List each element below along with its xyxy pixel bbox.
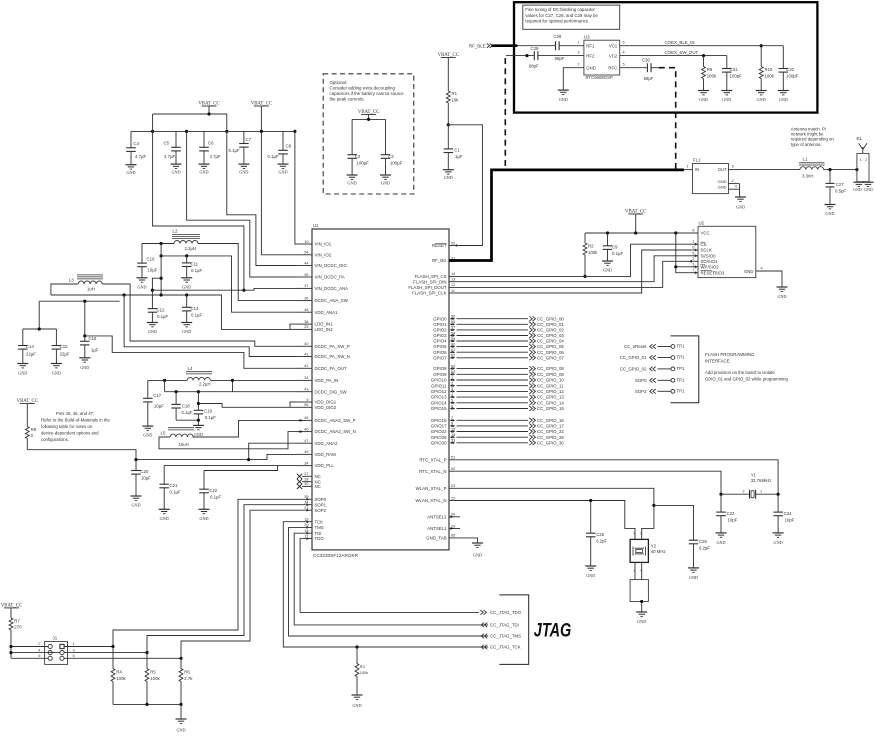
svg-text:33: 33 — [304, 376, 308, 380]
svg-text:GND: GND — [131, 503, 140, 508]
svg-text:FLASH_SPI_DOUT: FLASH_SPI_DOUT — [408, 285, 446, 290]
wire U2 SO stub — [690, 260, 698, 262]
svg-text:34: 34 — [304, 501, 308, 505]
wire CC_GPIO_10 net — [457, 379, 529, 381]
svg-text:C18: C18 — [182, 404, 190, 409]
svg-text:R1: R1 — [452, 91, 458, 96]
wire CC_GPIO_09 net — [457, 373, 529, 375]
capacitor C10 — [141, 244, 143, 264]
svg-text:1: 1 — [760, 490, 762, 494]
note: fine tuning DC blocking caps — [523, 5, 620, 29]
svg-text:GND: GND — [80, 365, 89, 370]
capacitor C24 — [777, 494, 779, 512]
svg-text:FLASH_SPI_CS: FLASH_SPI_CS — [415, 274, 447, 279]
svg-text:C5: C5 — [164, 141, 170, 146]
wire CC_GPIO_17 net — [457, 425, 529, 427]
svg-text:CC_GPIO_01: CC_GPIO_01 — [537, 322, 564, 327]
wire VDD_RAM feed — [27, 450, 296, 460]
capacitor C26 — [689, 539, 698, 541]
svg-text:VIN_DCDC_PA: VIN_DCDC_PA — [315, 275, 345, 280]
pin 46 arrow — [298, 430, 301, 432]
capacitor C19 — [197, 392, 199, 411]
svg-text:JTAG: JTAG — [534, 620, 572, 641]
svg-text:GND: GND — [722, 97, 731, 102]
pin 1 square (J1) — [60, 644, 64, 648]
ground (C11) — [181, 277, 192, 279]
svg-text:1uH: 1uH — [87, 287, 95, 292]
svg-text:1: 1 — [687, 165, 689, 169]
svg-text:68pF: 68pF — [529, 63, 539, 68]
wire rail A left drop — [152, 114, 154, 131]
svg-text:CC_GPIO_04: CC_GPIO_04 — [537, 339, 564, 344]
svg-text:C7: C7 — [246, 137, 252, 142]
svg-text:4.7µF: 4.7µF — [135, 154, 146, 159]
wire WLAN_XTAL_P net — [455, 488, 654, 539]
svg-text:6: 6 — [38, 654, 40, 658]
wire CC_GPIO_13 net — [457, 396, 529, 398]
svg-text:R3: R3 — [360, 664, 365, 669]
svg-text:GND: GND — [239, 170, 248, 175]
svg-text:GND: GND — [864, 187, 873, 192]
ground (C2) — [347, 174, 358, 176]
wire LDO_IN node — [51, 295, 290, 329]
wire COEX_SW_OUT net — [620, 55, 727, 57]
svg-text:capacitors if the battery cann: capacitors if the battery cannot source — [330, 91, 405, 96]
svg-text:GND: GND — [199, 516, 208, 521]
svg-text:CC_GPIO_00: CC_GPIO_00 — [537, 316, 564, 321]
svg-text:GND: GND — [160, 516, 169, 521]
ground (R4-R6) — [176, 718, 187, 720]
wire WLAN_XTAL_N net — [455, 501, 635, 540]
wire RESET net to U1 pin 32 — [448, 125, 482, 246]
ground (C24) — [773, 532, 784, 534]
svg-text:GPIO5: GPIO5 — [433, 344, 447, 349]
svg-text:2.2µH: 2.2µH — [199, 381, 211, 386]
wire U2 WP stub — [690, 266, 698, 268]
pin ANTSEL2 stub — [449, 516, 460, 518]
svg-text:0.1µF: 0.1µF — [612, 251, 623, 256]
svg-text:8: 8 — [692, 229, 694, 233]
capacitor C12 — [151, 290, 153, 308]
svg-text:DCDC_DIG_SW: DCDC_DIG_SW — [315, 389, 348, 394]
wire L4 input — [148, 379, 187, 381]
svg-text:DCDC_ANA2_SW_N: DCDC_ANA2_SW_N — [315, 429, 356, 434]
svg-text:ANTSEL1: ANTSEL1 — [427, 526, 447, 531]
svg-text:GND: GND — [586, 65, 596, 70]
svg-text:Refer to the Build-of-Material: Refer to the Build-of-Materials in the — [41, 417, 110, 422]
svg-text:100pF: 100pF — [786, 74, 799, 79]
svg-text:TP1: TP1 — [677, 366, 686, 371]
wire L3 left wrap — [51, 284, 78, 295]
test point bracket — [671, 336, 699, 403]
pin 27 (U1 NC) — [302, 475, 312, 477]
svg-text:3: 3 — [732, 165, 734, 169]
ground (C23) — [716, 532, 727, 534]
svg-text:GND: GND — [718, 179, 727, 184]
svg-text:WLAN_XTAL_P: WLAN_XTAL_P — [416, 486, 447, 491]
svg-text:5: 5 — [692, 251, 694, 255]
pin 2 circle (J1) — [48, 644, 52, 648]
svg-text:10µF: 10µF — [141, 476, 151, 481]
svg-text:GND: GND — [194, 432, 203, 437]
svg-text:SOP2: SOP2 — [635, 389, 647, 394]
svg-text:C29: C29 — [531, 46, 539, 51]
wire CC_GPIO_07 net — [457, 357, 529, 359]
svg-text:OUT: OUT — [718, 167, 727, 172]
svg-text:C21: C21 — [170, 483, 178, 488]
wire CC_GPIO_16 net — [457, 419, 529, 421]
svg-text:C12: C12 — [157, 307, 165, 312]
svg-text:0.1µF: 0.1µF — [210, 495, 221, 500]
svg-text:2.2µH: 2.2µH — [185, 246, 197, 251]
capacitor C2 — [347, 154, 357, 156]
pin 2 (FL1 GND) — [729, 183, 740, 185]
svg-text:6: 6 — [692, 246, 694, 250]
svg-text:WLAN_XTAL_N: WLAN_XTAL_N — [415, 498, 446, 503]
svg-text:GPIO6: GPIO6 — [433, 350, 447, 355]
svg-text:GPIO4: GPIO4 — [433, 339, 447, 344]
svg-text:DCDC_ANA2_SW_P: DCDC_ANA2_SW_P — [315, 418, 356, 423]
svg-text:TDO: TDO — [315, 536, 325, 541]
svg-text:100k: 100k — [707, 74, 717, 79]
ground (C9) — [602, 260, 613, 262]
svg-text:6.2pF: 6.2pF — [596, 538, 607, 543]
svg-text:GND: GND — [18, 371, 27, 376]
svg-text:9: 9 — [306, 398, 308, 402]
wire RTC_XTAL_P net — [455, 460, 778, 494]
svg-text:C32: C32 — [786, 67, 794, 72]
svg-text:CC_GPIO_03: CC_GPIO_03 — [537, 333, 564, 338]
svg-text:FL1: FL1 — [693, 158, 701, 163]
svg-text:68pF: 68pF — [555, 56, 565, 61]
ground (C6) — [199, 163, 210, 165]
svg-text:GPIO11: GPIO11 — [431, 383, 447, 388]
wire U2 SI stub — [690, 255, 698, 257]
svg-text:GND: GND — [199, 170, 208, 175]
capacitor C15 — [52, 345, 62, 347]
svg-text:C19: C19 — [204, 409, 212, 414]
net CC_JTAG_TDO — [480, 610, 483, 615]
svg-text:14: 14 — [451, 272, 455, 276]
svg-text:TP1: TP1 — [677, 388, 686, 393]
pin 25 (U1 LDO_IN2) — [296, 328, 312, 330]
resistor R5 — [146, 653, 148, 669]
ground (C15) — [51, 363, 62, 365]
ground (U3) — [558, 89, 569, 91]
svg-text:GND: GND — [444, 175, 453, 180]
wire CC_GPIO_01 net — [457, 323, 529, 325]
svg-text:GND: GND — [689, 575, 698, 580]
svg-text:43: 43 — [304, 388, 308, 392]
wire GND_TAB to ground — [455, 538, 478, 543]
capacitor C21 — [163, 466, 165, 485]
wire RF_BG stub — [449, 259, 455, 262]
svg-text:35: 35 — [304, 296, 308, 300]
svg-text:RF_BG: RF_BG — [432, 258, 447, 263]
svg-text:GND: GND — [853, 187, 862, 192]
svg-text:0.1µF: 0.1µF — [205, 415, 216, 420]
svg-text:GND: GND — [586, 573, 595, 578]
svg-text:GND: GND — [757, 97, 766, 102]
ground (Y2) — [636, 611, 647, 613]
wire SOP1 net — [147, 505, 312, 653]
svg-text:FLASH_SPI_DIN: FLASH_SPI_DIN — [413, 279, 446, 284]
svg-text:CS: CS — [701, 242, 707, 247]
svg-text:56: 56 — [304, 403, 308, 407]
ground (R9) — [698, 90, 709, 92]
wire VDD_PA_IN feed — [233, 379, 297, 381]
pin 35 (U1 DCDC_ANA_SW) — [296, 300, 312, 302]
svg-text:48: 48 — [304, 308, 308, 312]
svg-text:following table for notes on: following table for notes on — [41, 424, 93, 429]
JTAG connector bracket — [499, 595, 528, 665]
capacitor C17 — [147, 380, 149, 398]
svg-text:C4: C4 — [134, 141, 140, 146]
svg-text:C2: C2 — [355, 154, 361, 159]
svg-text:GPIO16: GPIO16 — [431, 418, 447, 423]
svg-text:RTC_XTAL_N: RTC_XTAL_N — [419, 469, 446, 474]
wire U2 VCC stub — [690, 232, 698, 234]
svg-text:C23: C23 — [727, 511, 735, 516]
svg-text:GPIO_01 and GPIO_02 while prog: GPIO_01 and GPIO_02 while programming — [705, 377, 788, 382]
svg-text:4: 4 — [761, 267, 763, 271]
wire dashed RF option right — [659, 68, 676, 169]
svg-text:C3: C3 — [388, 154, 394, 159]
wire RFC line — [620, 67, 648, 69]
svg-text:270: 270 — [14, 625, 22, 630]
svg-text:23: 23 — [451, 484, 455, 488]
pin 34 (U1 VDD_PLL) — [296, 465, 312, 467]
net CC_JTAG_TMS — [484, 634, 487, 639]
svg-text:U2: U2 — [699, 220, 705, 225]
svg-text:device-dependent options and: device-dependent options and — [41, 430, 99, 435]
svg-text:47: 47 — [304, 439, 308, 443]
ground (C8) — [278, 163, 289, 165]
ground (C17) — [142, 425, 153, 427]
svg-text:10pF: 10pF — [728, 517, 738, 522]
capacitor C27 — [829, 170, 831, 184]
wire RF2 line — [506, 55, 534, 57]
svg-text:0.1µF: 0.1µF — [157, 314, 168, 319]
pin 47 (U1 VDD_ANA2) — [296, 442, 312, 444]
svg-text:DCDC_PA_SW_N: DCDC_PA_SW_N — [315, 354, 350, 359]
wire rail A — [153, 113, 227, 115]
svg-text:C16: C16 — [89, 336, 97, 341]
pin 1 (FL1 IN) — [684, 169, 693, 171]
resistor R1 — [446, 91, 450, 103]
svg-text:E1: E1 — [857, 136, 863, 141]
svg-text:7: 7 — [692, 268, 694, 272]
svg-text:VDD_DIG2: VDD_DIG2 — [315, 405, 337, 410]
svg-text:34: 34 — [304, 461, 308, 465]
resistor R4 — [112, 647, 114, 669]
svg-text:44: 44 — [304, 261, 308, 265]
capacitor C32 — [782, 46, 784, 69]
svg-text:0.1µF: 0.1µF — [191, 313, 202, 318]
svg-text:U1: U1 — [313, 223, 319, 228]
svg-text:GND: GND — [716, 540, 725, 545]
wire VBAT feed to VIN_DCDC_ANA — [153, 131, 244, 290]
svg-text:GND: GND — [637, 619, 646, 624]
pin 37 (U1 VIN_DCDC_ANA) — [296, 287, 312, 289]
svg-text:CC_GPIO_02: CC_GPIO_02 — [537, 328, 564, 333]
svg-text:6: 6 — [623, 41, 625, 45]
svg-text:GND: GND — [718, 184, 727, 189]
svg-text:CC_GPIO_08: CC_GPIO_08 — [537, 366, 564, 371]
svg-text:C25: C25 — [596, 532, 604, 537]
svg-text:GND: GND — [825, 211, 834, 216]
svg-text:SCLK: SCLK — [701, 248, 712, 253]
header J1 box — [45, 642, 68, 665]
wire CC_GPIO_06 net — [457, 351, 529, 353]
svg-text:6.2pF: 6.2pF — [699, 545, 710, 550]
svg-text:GND: GND — [352, 703, 361, 708]
svg-text:52: 52 — [451, 467, 455, 471]
svg-text:GPIO28: GPIO28 — [431, 435, 447, 440]
pin 9 (U1 VDD_DIG1) — [296, 401, 312, 403]
svg-text:C13: C13 — [191, 306, 199, 311]
wire U2 RESET stub — [690, 272, 698, 274]
pin 44 (U1 VIN_DCDC_DIG) — [296, 265, 312, 267]
svg-text:C11: C11 — [191, 262, 199, 267]
svg-text:100k: 100k — [765, 74, 775, 79]
svg-text:0.1µF: 0.1µF — [182, 410, 193, 415]
ground (C20) — [131, 495, 142, 497]
svg-text:CC_GPIO_15: CC_GPIO_15 — [537, 406, 564, 411]
svg-text:C17: C17 — [153, 393, 161, 398]
svg-text:GND: GND — [559, 97, 568, 102]
svg-text:GPIO13: GPIO13 — [431, 395, 447, 400]
svg-text:type of antenna.: type of antenna. — [791, 142, 822, 147]
svg-text:C31: C31 — [730, 67, 738, 72]
crystal Y2 box — [630, 539, 648, 562]
wire rail B — [131, 130, 295, 132]
pin ANTSEL1 stub — [449, 528, 460, 530]
ground (C13) — [181, 322, 192, 324]
wire J1 pin5 to R6 — [64, 657, 181, 659]
svg-text:100k: 100k — [150, 676, 160, 681]
svg-text:VCC: VCC — [701, 231, 710, 236]
svg-text:GND: GND — [176, 728, 185, 733]
svg-text:GPIO17: GPIO17 — [431, 424, 447, 429]
svg-text:Fine tuning of DC blocking cap: Fine tuning of DC blocking capacitor — [525, 7, 595, 12]
ground (E1 pad1) — [853, 181, 864, 183]
svg-text:51: 51 — [451, 456, 455, 460]
net CC_JTAG_TCK — [484, 645, 487, 650]
ground (C26) — [688, 567, 699, 569]
svg-text:68pF: 68pF — [644, 76, 654, 81]
wire CC_GPIO_15 net — [457, 408, 529, 410]
svg-text:4: 4 — [735, 185, 737, 189]
svg-text:ANTSEL2: ANTSEL2 — [427, 514, 447, 519]
wire rail A right drop — [226, 114, 228, 131]
svg-text:C30: C30 — [642, 58, 650, 63]
capacitor C25 — [590, 501, 592, 534]
pin 5 circle (J1) — [60, 656, 64, 660]
resistor R9 — [703, 56, 705, 67]
svg-text:35: 35 — [304, 495, 308, 499]
svg-text:C20: C20 — [141, 469, 149, 474]
MCU U1 (CC3230SF12ARGKR) box — [312, 229, 449, 550]
svg-text:CC_GPIO_06: CC_GPIO_06 — [537, 350, 564, 355]
svg-text:DCDC_PA_SW_P: DCDC_PA_SW_P — [315, 344, 350, 349]
wire C14/C15 rail — [23, 328, 57, 330]
svg-text:2: 2 — [742, 490, 744, 494]
svg-text:40: 40 — [304, 342, 308, 346]
pin 39 (U1 VIN_DCDC_PA) — [296, 276, 312, 278]
svg-text:Pins 45, 46, and 47:: Pins 45, 46, and 47: — [56, 411, 94, 416]
wire CC_JTAG_TDI net — [294, 533, 488, 625]
svg-text:U3: U3 — [584, 35, 590, 40]
svg-text:the peak currents.: the peak currents. — [330, 97, 365, 102]
svg-text:R7: R7 — [14, 618, 20, 623]
svg-text:3: 3 — [692, 262, 694, 266]
wire DCDC_DIG_SW node — [164, 380, 166, 391]
svg-text:1: 1 — [73, 642, 75, 646]
svg-text:R5: R5 — [150, 669, 156, 674]
ground (C4) — [126, 164, 137, 166]
ground (R10) — [756, 90, 767, 92]
svg-text:13: 13 — [451, 278, 455, 282]
svg-text:10uH: 10uH — [179, 442, 189, 447]
svg-text:INTERFACE: INTERFACE — [705, 359, 730, 364]
svg-text:VIN_IO1: VIN_IO1 — [315, 242, 332, 247]
svg-text:configurations.: configurations. — [41, 437, 69, 442]
svg-text:4: 4 — [623, 51, 625, 55]
svg-text:21: 21 — [304, 506, 308, 510]
wire FLASH_SPI_DOUT net — [455, 261, 690, 287]
svg-text:2: 2 — [577, 63, 579, 67]
capacitor C30 (series) — [646, 63, 648, 72]
svg-text:GND: GND — [699, 97, 708, 102]
svg-text:C14: C14 — [26, 344, 34, 349]
svg-text:CC_nReset: CC_nReset — [624, 344, 647, 349]
svg-text:GND: GND — [143, 433, 152, 438]
svg-text:J1: J1 — [53, 636, 58, 641]
svg-text:100µF: 100µF — [357, 160, 370, 165]
svg-text:4.7µF: 4.7µF — [210, 154, 221, 159]
svg-text:40 MHz: 40 MHz — [651, 549, 666, 554]
svg-text:/SIO3: /SIO3 — [713, 270, 725, 275]
svg-text:CC_JTAG_TDO: CC_JTAG_TDO — [490, 610, 522, 615]
svg-text:GPIO7: GPIO7 — [433, 355, 447, 360]
svg-text:C6: C6 — [208, 141, 214, 146]
coexistence block outer box — [514, 2, 817, 112]
svg-text:C10: C10 — [147, 256, 155, 261]
ground (C21) — [159, 508, 170, 510]
svg-text:VDD_DIG1: VDD_DIG1 — [315, 400, 337, 405]
pin 41 (U1 DCDC_PA_SW_N) — [296, 356, 312, 358]
svg-text:100k: 100k — [360, 670, 368, 675]
svg-text:required for optimal performan: required for optimal performance. — [525, 18, 589, 23]
wire dashed RF option left — [504, 58, 506, 169]
svg-text:10k: 10k — [452, 98, 460, 103]
capacitor C9 — [607, 233, 609, 246]
resistor R2 — [584, 233, 586, 243]
wire CC_GPIO_30 net — [457, 442, 529, 444]
capacitor C8 — [282, 131, 284, 150]
svg-text:CC_GPIO_13: CC_GPIO_13 — [537, 395, 564, 400]
svg-text:CC_GPIO_01: CC_GPIO_01 — [620, 355, 647, 360]
svg-text:DCDC_PA_OUT: DCDC_PA_OUT — [315, 366, 347, 371]
wire CC_GPIO_11 net — [457, 385, 529, 387]
pin 48 (U1 VDD_ANA1) — [296, 311, 312, 313]
svg-text:30: 30 — [304, 482, 308, 486]
svg-text:C22: C22 — [209, 488, 217, 493]
wire VIN_DCDC_ANA feed — [152, 288, 296, 290]
capacitor C20 — [135, 460, 137, 471]
resistor R6 — [180, 658, 182, 668]
